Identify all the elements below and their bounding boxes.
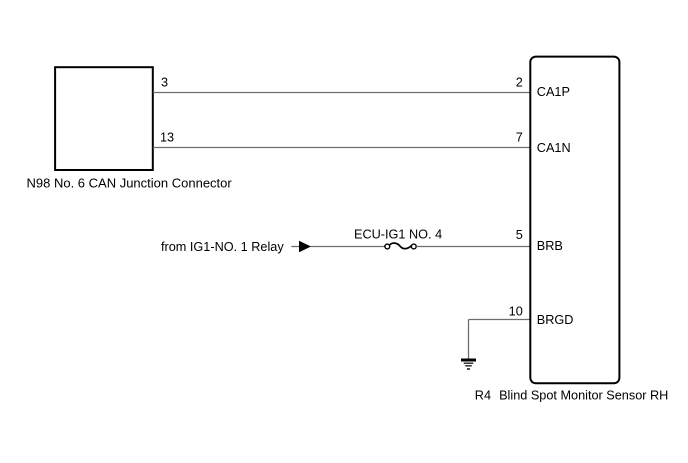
svg-text:7: 7	[516, 131, 523, 145]
fuse element squiggle	[390, 243, 412, 249]
svg-text:3: 3	[161, 76, 168, 90]
svg-text:CA1N: CA1N	[537, 141, 571, 155]
wire BRGD horizontal	[469, 319, 531, 321]
svg-text:R4: R4	[475, 389, 491, 403]
wire BRB left segment	[311, 246, 385, 248]
svg-text:2: 2	[516, 76, 523, 90]
wire stub before arrow	[291, 246, 300, 248]
ground	[461, 360, 476, 369]
svg-text:13: 13	[160, 131, 174, 145]
arrow	[299, 241, 311, 252]
svg-text:from IG1-NO. 1 Relay: from IG1-NO. 1 Relay	[161, 240, 284, 254]
wire BRB right segment	[416, 246, 530, 248]
fuse ECU-IG1 NO. 4 right terminal	[411, 244, 416, 249]
wire CA1N (pin 13 to pin 7)	[153, 147, 530, 149]
svg-text:N98 No. 6 CAN Junction Connect: N98 No. 6 CAN Junction Connector	[27, 176, 233, 191]
wire BRGD vertical	[468, 320, 470, 359]
connector N98 box	[55, 67, 153, 170]
svg-text:5: 5	[516, 228, 523, 242]
svg-text:CA1P: CA1P	[537, 85, 570, 99]
svg-text:BRB: BRB	[537, 239, 563, 253]
svg-text:10: 10	[509, 305, 523, 319]
sensor R4 box	[530, 57, 619, 384]
fuse ECU-IG1 NO. 4 left terminal	[385, 244, 390, 249]
svg-text:ECU-IG1 NO. 4: ECU-IG1 NO. 4	[354, 228, 442, 242]
svg-text:BRGD: BRGD	[537, 313, 574, 327]
wire CA1P (pin 3 to pin 2)	[153, 92, 530, 94]
svg-text:Blind Spot Monitor Sensor RH: Blind Spot Monitor Sensor RH	[499, 389, 668, 403]
